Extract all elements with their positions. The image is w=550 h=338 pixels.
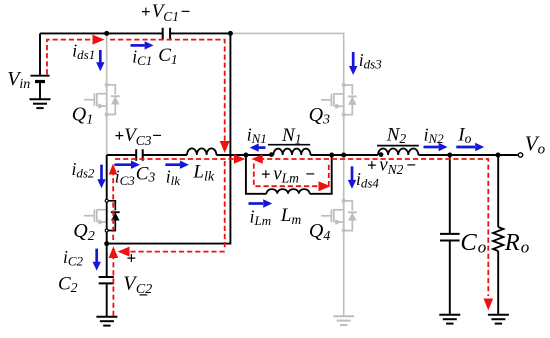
wire: Lm to box right edge up to rail (310, 155, 332, 194)
transistor Q3 (321, 83, 357, 117)
arrow i_C1 (131, 41, 154, 49)
arrow i_N2 (424, 143, 448, 151)
svg-text:iN2: iN2 (424, 124, 445, 146)
wire: Q4 source down to ground (gray) (343, 232, 345, 315)
red arrowhead into node A (right) (93, 35, 105, 45)
svg-text:+VC1−: +VC1− (141, 1, 190, 24)
wire: red path C1 branch below rail (224, 161, 226, 250)
node (Q2 source / C2 top) (104, 241, 109, 246)
wire: red path Q2 body diode up (112, 172, 114, 240)
arrow i_ds2 (97, 165, 105, 189)
node A (104, 31, 109, 36)
arrow i_C3 (114, 161, 140, 169)
svg-text:+: + (127, 249, 137, 268)
arrow i_C2 (93, 249, 101, 271)
svg-text:iC1: iC1 (132, 47, 152, 69)
svg-text:Vo: Vo (525, 132, 546, 158)
svg-text:C2: C2 (58, 273, 78, 295)
resistor Ro (493, 227, 503, 314)
N2 polarity dot (379, 152, 384, 157)
wire: top rail Vin to node A (40, 32, 230, 34)
transistor Q1 (84, 83, 120, 117)
wire: N1 to N2 (311, 154, 379, 156)
red arrowhead right into node B (234, 154, 246, 164)
wire: red path Lm inner loop (254, 164, 319, 187)
arrow i_N1 (leftward) (250, 143, 266, 151)
svg-text:+vLm−: +vLm− (261, 163, 315, 185)
wire: red path bottom horizontal to Q2 node (128, 251, 225, 253)
svg-text:Q4: Q4 (309, 220, 330, 244)
wire: red path middle rail right of node B (259, 159, 488, 296)
wire: Q3 source to Q4 drain (gray) (343, 117, 345, 200)
capacitor C1 (155, 28, 177, 40)
arrow i_ds1 (96, 50, 104, 71)
wire: Q1 source to node B (gray) (106, 116, 108, 154)
wire: Q2 drain leg (black) (106, 155, 108, 199)
node (Co top) (447, 153, 452, 158)
svg-text:C1: C1 (158, 45, 177, 67)
capacitor C3 (136, 149, 187, 161)
red arrowhead up (C2 into node) (109, 246, 119, 258)
svg-text:iC3: iC3 (115, 166, 136, 188)
svg-text:Io: Io (457, 124, 471, 146)
wire: Q2 source to C2 (106, 232, 108, 276)
wire: Llk to N1 (216, 154, 273, 156)
wire: middle rail from Q1 source corner to C3 (107, 154, 136, 156)
arrow i_Lm (249, 199, 273, 207)
svg-text:C3: C3 (136, 163, 156, 184)
wire: Co branch (449, 155, 451, 233)
svg-text:Q1: Q1 (72, 104, 93, 128)
svg-text:ids2: ids2 (72, 159, 95, 181)
svg-text:ids3: ids3 (359, 50, 382, 72)
capacitor C2 (99, 277, 114, 316)
arrow i_ds3 (349, 52, 357, 75)
N1 core bar (268, 144, 310, 146)
transistor Q2 (gate gray, body+diode black) (84, 199, 120, 232)
capacitor Co (440, 234, 460, 314)
transistor Q4 (321, 199, 357, 233)
svg-text:+VC3−: +VC3− (115, 125, 162, 148)
arrow i_ds4 (348, 166, 356, 189)
svg-text:Llk: Llk (192, 161, 214, 184)
svg-text:Q3: Q3 (309, 104, 330, 128)
svg-text:ilk: ilk (166, 166, 180, 188)
wire: Q1 drain leg (gray) (106, 33, 108, 83)
ground (Co) (439, 315, 460, 324)
red arrowhead left into node B (251, 154, 262, 164)
wire: C1 right branch down and across to Q2 source node (107, 33, 231, 243)
ground (Vin) (30, 99, 51, 108)
N1 polarity dot (269, 152, 274, 157)
arrow i_lk (165, 161, 189, 169)
wire: red path middle rail (115, 158, 236, 160)
svg-text:ids1: ids1 (72, 41, 95, 63)
wire: node B down into Lm box (246, 155, 267, 194)
node (Q3/Q4 midpoint tap) (341, 153, 346, 158)
arrow I_o (456, 143, 484, 151)
N2 core bar (377, 145, 419, 147)
svg-text:+vN2−: +vN2− (367, 155, 416, 177)
wire: N2 to output terminal (418, 154, 517, 156)
svg-text:−: − (139, 286, 149, 305)
svg-text:N2: N2 (386, 124, 407, 146)
svg-text:Q2: Q2 (73, 220, 94, 244)
terminal Vo (open circle) (518, 153, 522, 157)
svg-text:Ro: Ro (504, 229, 529, 256)
svg-text:Co: Co (460, 229, 486, 256)
svg-text:iN1: iN1 (247, 124, 267, 146)
inductor Lm (magnetizing) (267, 189, 310, 194)
wire: red path Vin loop (left) (47, 40, 92, 75)
node (Ro top) (496, 153, 501, 158)
winding N1 (273, 149, 310, 155)
svg-text:Vin: Vin (7, 68, 30, 92)
wire: Ro branch (497, 155, 499, 227)
svg-text:N1: N1 (281, 125, 301, 147)
wire: red path node A to C1 branch down (110, 40, 225, 141)
node (Lm box right / N1 end) (329, 153, 334, 158)
red arrowhead right (Lm loop bottom) (319, 181, 331, 191)
svg-text:iC2: iC2 (63, 247, 84, 269)
voltage source Vin (31, 33, 50, 98)
ground (gray, below Q4) (333, 316, 354, 325)
red arrowhead left (bottom path into Q2 node) (118, 247, 130, 257)
svg-text:iLm: iLm (250, 206, 272, 228)
node B (junction to Lm box) (243, 153, 248, 158)
svg-text:Lm: Lm (280, 205, 302, 227)
red arrowhead down (C1 branch) (220, 141, 230, 153)
ground (Ro) (488, 315, 509, 324)
red arrowhead down (output loop end) (484, 299, 494, 311)
wire: red path C2 up (112, 254, 114, 316)
inductor Llk (187, 148, 216, 155)
winding N2 (378, 149, 418, 156)
red arrowhead up (diode path into rail) (109, 164, 118, 175)
wire: node A to Q3 drain (gray top-right rail) (230, 33, 343, 83)
ground (C2) (96, 317, 117, 326)
node (C1 right) (228, 31, 233, 36)
